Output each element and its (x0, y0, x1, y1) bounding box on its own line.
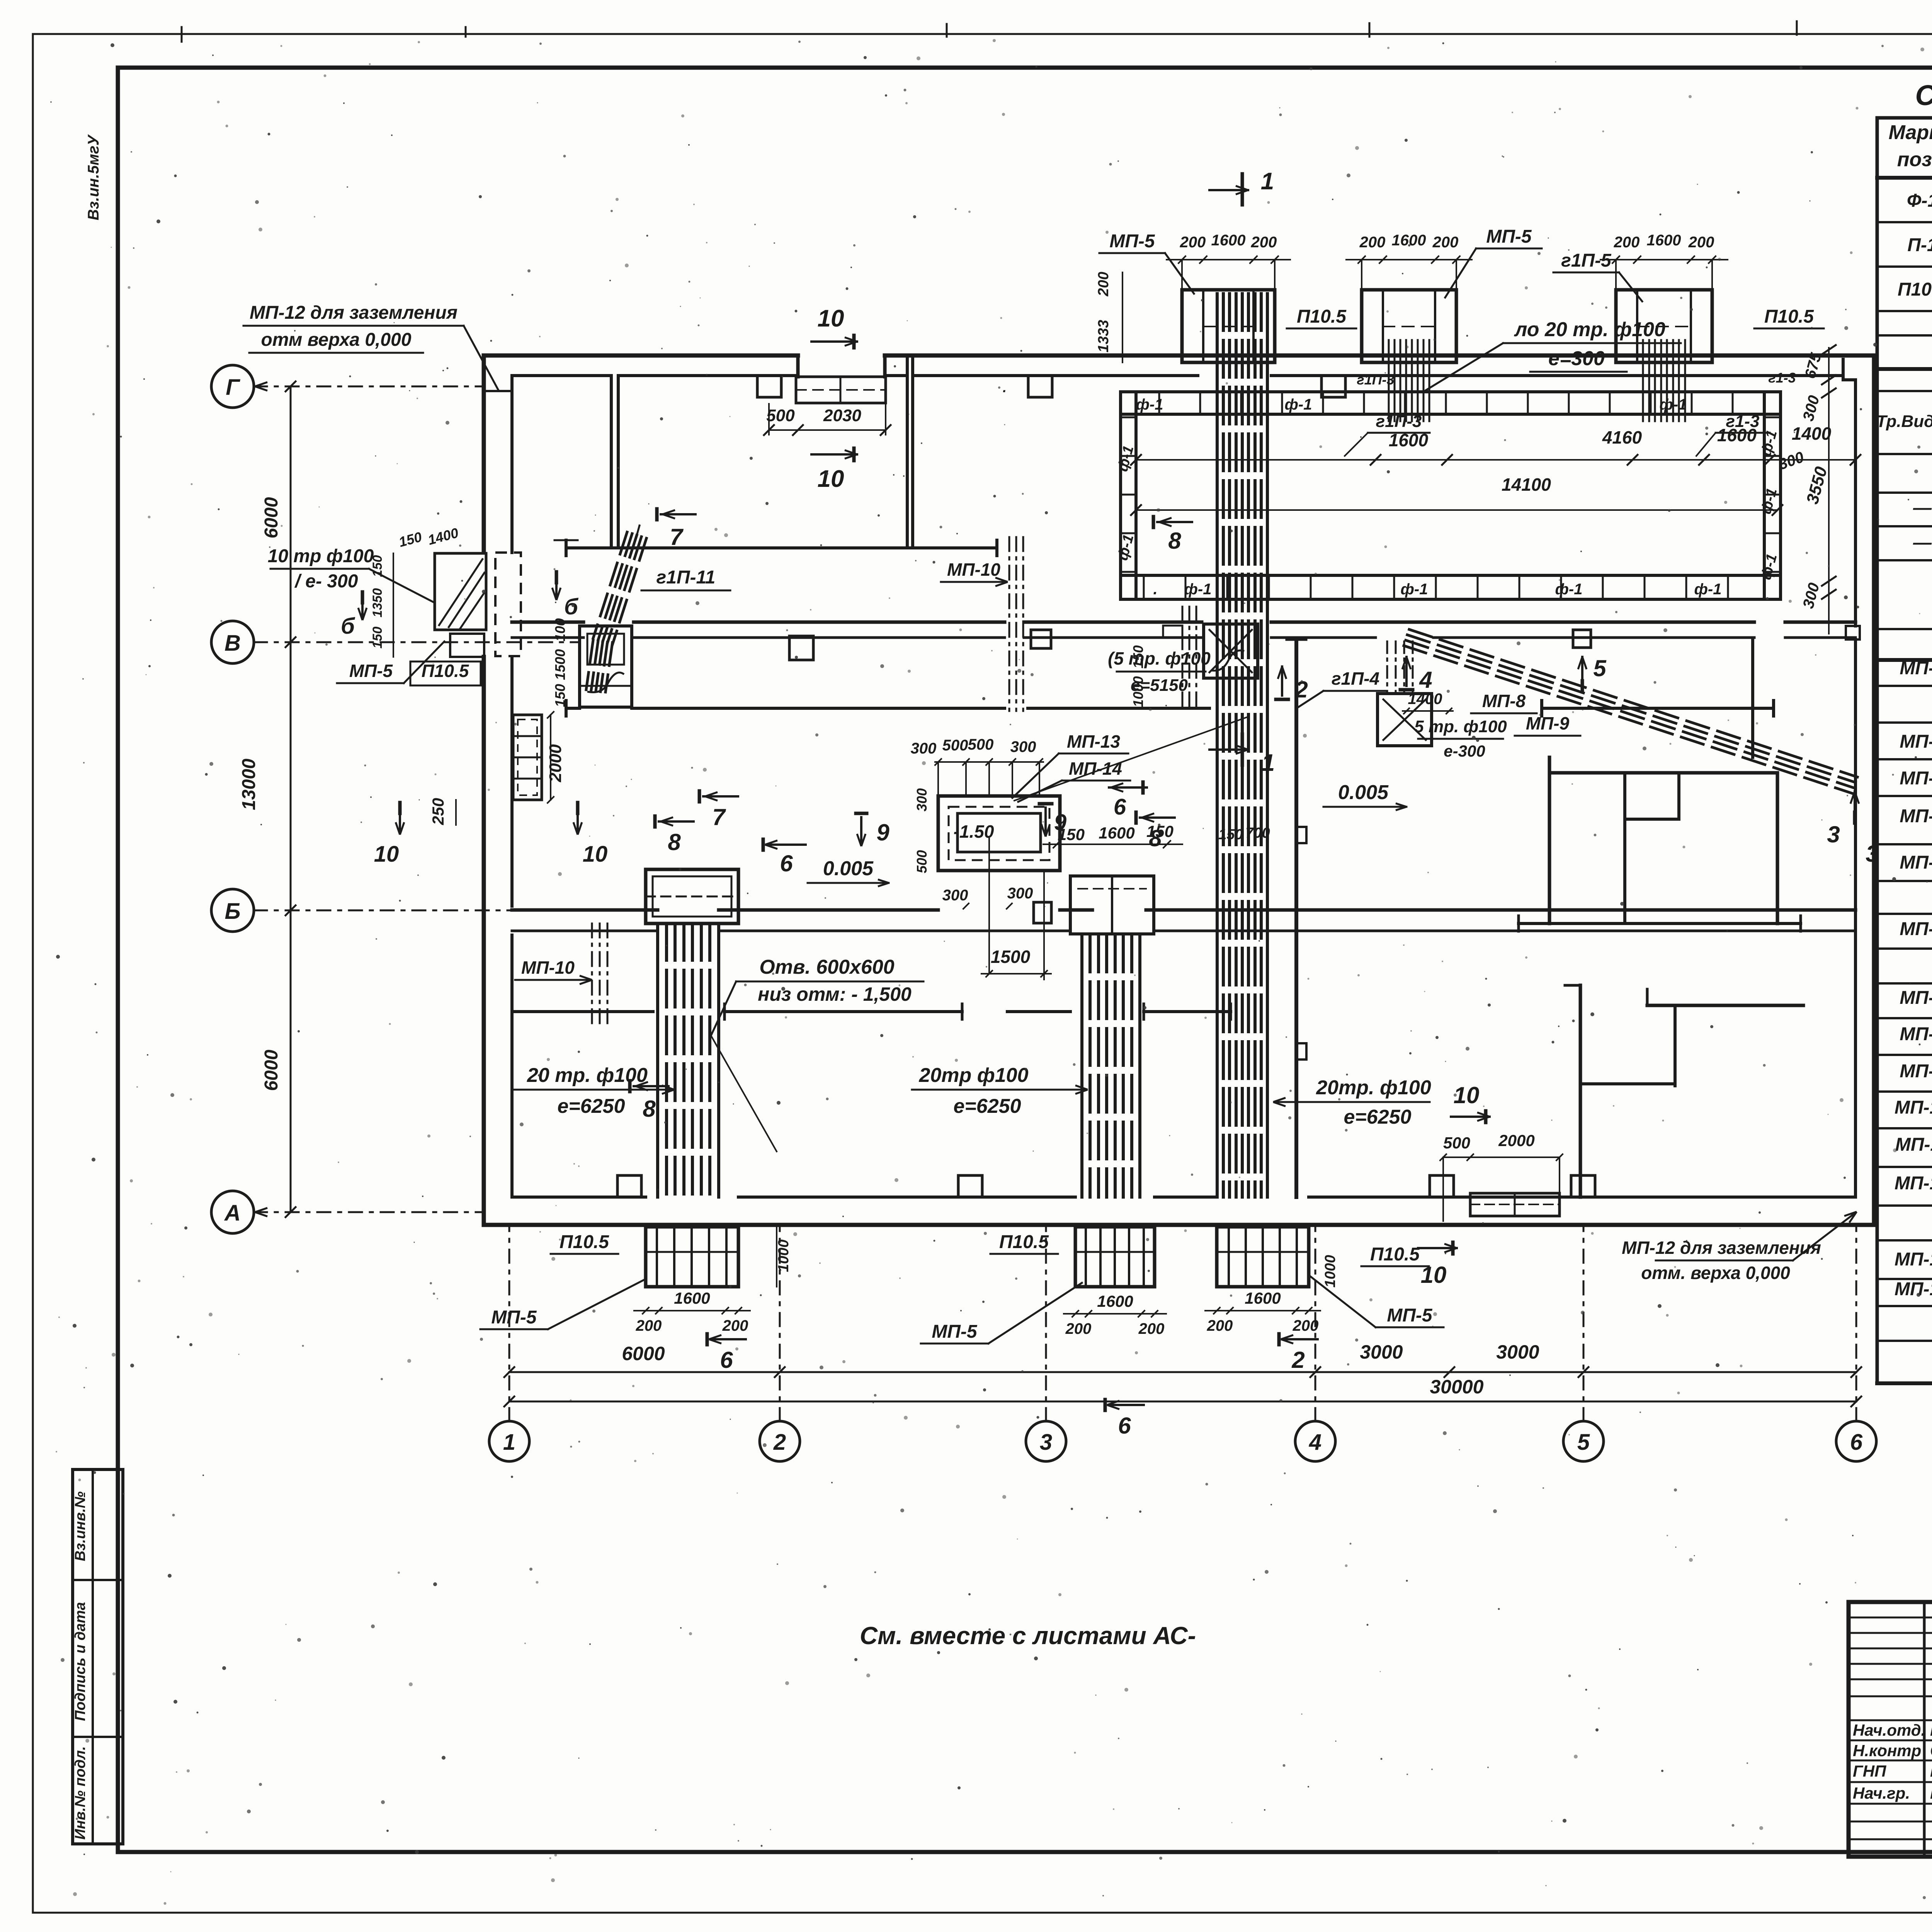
section flag 10 above recess (852, 335, 856, 348)
svg-text:3: 3 (1827, 821, 1840, 847)
svg-text:500: 500 (914, 850, 930, 873)
svg-text:1400: 1400 (1408, 690, 1442, 707)
svg-text:2000: 2000 (1498, 1131, 1534, 1150)
svg-text:6000: 6000 (261, 497, 282, 538)
flag 3 right end of D2 (1853, 812, 1857, 823)
svg-text:0.005: 0.005 (1338, 781, 1389, 804)
MP-9 / D2 diagonal bundle (1409, 629, 1857, 777)
svg-text:1500: 1500 (552, 649, 568, 680)
svg-text:2030: 2030 (823, 406, 861, 425)
right middle room cluster (1548, 757, 1551, 923)
svg-text:200: 200 (722, 1317, 748, 1334)
svg-text:6: 6 (720, 1347, 733, 1373)
B1 lower box P10.5 (1217, 1227, 1309, 1287)
flag 6 pair mid (762, 839, 765, 850)
dim 1500 (981, 973, 1051, 975)
svg-text:П10.5: П10.5 (1764, 306, 1814, 327)
svg-text:300: 300 (914, 788, 930, 811)
svg-text:8: 8 (1149, 825, 1162, 851)
svg-text:6: 6 (1118, 1413, 1131, 1439)
svg-text:300: 300 (1010, 738, 1036, 755)
svg-text:300: 300 (942, 887, 968, 904)
B2 lower box P10.5 (646, 1227, 738, 1287)
svg-text:Вз.ин.5мгУ: Вз.ин.5мгУ (85, 134, 102, 220)
svg-text:МП-10: МП-10 (947, 560, 1000, 580)
svg-text:ло 20 тр. ф100: ло 20 тр. ф100 (1514, 318, 1665, 341)
dim 300/500/500/300 above pit (935, 761, 1043, 763)
axis circle V (211, 621, 254, 663)
svg-text:1600: 1600 (674, 1289, 710, 1307)
svg-text:МП-9: МП-9 (1900, 1061, 1932, 1082)
left margin column table (73, 1469, 123, 1844)
svg-text:ф-1: ф-1 (1555, 581, 1583, 598)
svg-text:низ отм: - 1,500: низ отм: - 1,500 (758, 983, 912, 1005)
MP-10 dashed crossing at right (15tr) (1182, 607, 1184, 711)
svg-text:МП-10: МП-10 (521, 957, 575, 978)
dim 500 2030 under recess (769, 429, 886, 431)
svg-text:Б: Б (224, 899, 240, 924)
svg-text:Тр.Вид-100: Тр.Вид-100 (1876, 412, 1932, 431)
svg-text:-1.50: -1.50 (954, 821, 994, 842)
wall stub right of W6 (1751, 639, 1754, 757)
svg-text:г1П-11: г1П-11 (656, 567, 716, 588)
svg-text:МП-11: МП-11 (1895, 1134, 1932, 1155)
wall W4 corridor lower (y 1833) (566, 707, 580, 710)
svg-text:200: 200 (1207, 1317, 1233, 1334)
svg-text:1: 1 (1261, 168, 1274, 195)
V-axis center pit (B1) (1211, 650, 1244, 670)
axis circle 2 (760, 1421, 800, 1461)
svg-text:10: 10 (374, 842, 399, 867)
svg-text:150: 150 (1130, 645, 1146, 668)
svg-text:5: 5 (1577, 1430, 1590, 1455)
svg-text:7: 7 (712, 804, 726, 830)
svg-text:10: 10 (818, 466, 844, 492)
long leader diagonal to pit (1014, 717, 1248, 801)
B3 upper entry box (1070, 876, 1154, 934)
svg-text:13000: 13000 (239, 759, 259, 810)
svg-text:8: 8 (668, 829, 681, 855)
title block outer (1849, 1602, 1932, 1857)
svg-text:П10.5: П10.5 (999, 1232, 1049, 1252)
svg-text:ф-1: ф-1 (1285, 396, 1312, 413)
small dims 150/1350/150 left annex (393, 553, 394, 657)
right wall pilaster (1846, 626, 1860, 639)
bottom dimension line 1 (509, 1371, 1856, 1373)
right wall top recess (1842, 359, 1845, 380)
svg-text:3000: 3000 (1360, 1341, 1403, 1363)
svg-text:2000: 2000 (546, 744, 565, 782)
pipe bundle B1 vertical (1216, 294, 1219, 1197)
svg-text:1000: 1000 (1130, 676, 1146, 707)
svg-text:См. вместе с листами АС-: См. вместе с листами АС- (860, 1622, 1196, 1650)
svg-text:6000: 6000 (622, 1343, 665, 1364)
svg-text:6: 6 (1114, 794, 1126, 820)
pit block wall top band (1121, 392, 1781, 414)
svg-text:1000: 1000 (776, 1240, 792, 1272)
svg-text:б: б (341, 614, 355, 639)
section flag b pair (361, 592, 364, 603)
axis circle 6 (1836, 1421, 1876, 1461)
svg-text:700: 700 (1245, 825, 1270, 841)
svg-text:—: — (1913, 498, 1932, 518)
svg-text:МП-4: МП-4 (1900, 806, 1932, 827)
flag 7 pair (655, 509, 659, 520)
svg-text:МП-5: МП-5 (1387, 1305, 1432, 1326)
svg-text:МП-10: МП-10 (1895, 1097, 1932, 1118)
B2 upper entry box (646, 869, 738, 923)
svg-text:ф-1: ф-1 (1184, 581, 1212, 598)
svg-text:Вз.инв.№: Вз.инв.№ (72, 1492, 88, 1561)
flag 8 left lower (628, 1081, 632, 1092)
svg-text:4: 4 (1309, 1430, 1321, 1455)
svg-text:1400: 1400 (1792, 423, 1832, 444)
svg-text:б: б (564, 594, 579, 619)
svg-text:МП-7: МП-7 (1900, 988, 1932, 1008)
left top box vertical dims 200/1333 (1122, 272, 1123, 362)
svg-text:е-300: е-300 (1444, 742, 1485, 760)
flag 8 pair (1152, 517, 1155, 527)
svg-text:МП-12 для заземления: МП-12 для заземления (250, 303, 457, 323)
svg-text:Отв. 600х600: Отв. 600х600 (759, 956, 895, 978)
svg-text:Ковалев: Ковалев (1930, 1762, 1932, 1781)
flag 2 below pit (1276, 698, 1288, 701)
right lower room cluster (1579, 985, 1582, 1197)
svg-text:200: 200 (1614, 234, 1640, 251)
pit inner dim chain 1600/4160/1600/1400 (1136, 459, 1855, 461)
svg-text:1350: 1350 (370, 588, 385, 617)
svg-text:МП-14: МП-14 (1895, 1279, 1932, 1299)
building outer wall left (482, 355, 486, 553)
svg-text:МП-2: МП-2 (1900, 731, 1932, 752)
svg-text:1000: 1000 (1322, 1255, 1338, 1288)
svg-text:5: 5 (1593, 655, 1607, 681)
svg-text:3000: 3000 (1496, 1341, 1539, 1363)
svg-text:Подпись и дата: Подпись и дата (72, 1602, 88, 1721)
svg-text:150: 150 (552, 684, 568, 707)
svg-text:8: 8 (1168, 528, 1181, 554)
B3 lower box P10.5 (1075, 1227, 1155, 1287)
svg-text:Шленова: Шленова (1930, 1784, 1932, 1803)
MP-11 pit at axis V (580, 626, 632, 707)
svg-text:МП-12 для заземления: МП-12 для заземления (1622, 1238, 1821, 1258)
svg-text:МП-13: МП-13 (1895, 1249, 1932, 1270)
axis circle G (211, 365, 254, 408)
svg-text:е=6250: е=6250 (1344, 1106, 1412, 1128)
svg-text:МП-6: МП-6 (1900, 919, 1932, 939)
flag 9 pair (856, 812, 867, 815)
MP-10 dashed bundle left (591, 923, 593, 1024)
wall W3 corridor upper (y 1610/1650) (512, 621, 583, 624)
axis horizontal dash lines (254, 386, 485, 388)
section flag 10 below recess (852, 448, 856, 461)
svg-text:В: В (224, 631, 241, 656)
svg-text:МП-3: МП-3 (1900, 768, 1932, 789)
axis circle 3 (1026, 1421, 1066, 1461)
svg-text:П10.5: П10.5 (1898, 279, 1932, 300)
svg-text:П10.5: П10.5 (1297, 306, 1347, 327)
svg-text:20тр ф100: 20тр ф100 (918, 1064, 1028, 1087)
svg-text:МП-5: МП-5 (491, 1307, 537, 1328)
axis circle 4 (1295, 1421, 1335, 1461)
svg-text:1: 1 (1262, 750, 1275, 776)
column pilasters (757, 376, 781, 397)
right vertical dim chain 675/300/3550/300 (1828, 348, 1830, 634)
svg-text:7: 7 (670, 524, 684, 550)
flag 4 below pit (1400, 688, 1413, 692)
svg-text:250: 250 (429, 798, 447, 825)
title block left thin rows (1849, 1617, 1932, 1619)
svg-text:г1-3: г1-3 (1768, 370, 1796, 386)
svg-text:100: 100 (552, 618, 568, 641)
svg-text:4160: 4160 (1602, 427, 1642, 447)
svg-text:отм. верха 0,000: отм. верха 0,000 (1641, 1263, 1790, 1283)
svg-text:МП-1: МП-1 (1900, 658, 1932, 679)
axis circle 1 (489, 1421, 529, 1461)
title block left columns (1923, 1602, 1926, 1857)
svg-text:г1П-3: г1П-3 (1357, 372, 1394, 388)
svg-text:ф-1: ф-1 (1694, 581, 1722, 598)
flags 10 pair near stair (398, 803, 402, 813)
svg-text:г1П-4: г1П-4 (1332, 668, 1379, 689)
svg-text:10: 10 (1454, 1082, 1480, 1108)
MP-10 dashed bundle center (1009, 537, 1010, 711)
svg-text:200: 200 (1138, 1320, 1165, 1337)
pipe bundle B3 vertical (1080, 935, 1083, 1197)
B3 dim 150/1600/150 (1043, 844, 1182, 845)
svg-text:МП-5: МП-5 (1109, 231, 1155, 252)
svg-text:2: 2 (1291, 1347, 1304, 1373)
vertical hatch in top boxes (1388, 340, 1390, 421)
svg-text:МП-12: МП-12 (1895, 1173, 1932, 1194)
svg-text:.: . (1153, 581, 1157, 598)
building outer wall top (484, 354, 798, 358)
wall V2 vertical (906, 355, 909, 548)
B1 passes pit box at axis V (1204, 624, 1258, 678)
svg-text:3: 3 (1040, 1430, 1052, 1455)
svg-text:6: 6 (1850, 1430, 1863, 1455)
svg-text:е=300: е=300 (1548, 347, 1605, 370)
svg-text:20тр. ф100: 20тр. ф100 (1316, 1077, 1431, 1099)
left annex hatched entrance (435, 553, 486, 630)
top pipe entry boxes P10.5 (1182, 290, 1275, 362)
svg-text:Сацюк: Сацюк (1930, 1741, 1932, 1760)
svg-text:30000: 30000 (1430, 1376, 1483, 1398)
svg-text:2: 2 (773, 1430, 786, 1455)
svg-text:500: 500 (1443, 1134, 1470, 1152)
wall W2 thin (y 1418) (566, 546, 997, 549)
svg-text:Инв.№ подл.: Инв.№ подл. (72, 1746, 88, 1840)
svg-text:150: 150 (370, 627, 385, 649)
svg-text:г1-3: г1-3 (1726, 412, 1759, 431)
svg-text:200: 200 (1432, 234, 1459, 251)
5tr dash bundle (1386, 641, 1388, 694)
svg-text:/ е- 300: / е- 300 (294, 571, 358, 592)
svg-text:ф-1: ф-1 (1136, 396, 1163, 413)
svg-text:3: 3 (1866, 841, 1878, 867)
section flags bottom 6 2 6 (706, 1334, 709, 1345)
svg-text:е=6250: е=6250 (954, 1095, 1021, 1117)
pit block wall right band (1764, 392, 1781, 599)
svg-text:200: 200 (1095, 272, 1112, 296)
svg-text:ф-1: ф-1 (1401, 581, 1428, 598)
svg-text:МП-13: МП-13 (1067, 731, 1120, 752)
central square pit (938, 796, 1060, 871)
svg-text:200: 200 (1180, 234, 1206, 251)
stair box with 2000 label (513, 715, 542, 800)
section flag 10 above bottom wall (1484, 1111, 1488, 1122)
svg-text:Ф-1: Ф-1 (1907, 190, 1932, 211)
svg-text:Н.контр: Н.контр (1853, 1742, 1921, 1760)
grate box 500/2000 at bottom wall (1470, 1193, 1560, 1216)
svg-text:П10.5: П10.5 (422, 661, 469, 681)
MP-11 diagonal bundle (612, 538, 646, 645)
svg-text:500: 500 (968, 736, 994, 753)
axis circle 5 (1563, 1421, 1604, 1461)
svg-text:А: А (224, 1201, 241, 1226)
svg-text:МП-5: МП-5 (1900, 852, 1932, 873)
svg-text:1: 1 (503, 1430, 515, 1455)
svg-text:500: 500 (942, 737, 968, 754)
svg-text:1600: 1600 (1647, 232, 1681, 249)
svg-text:14100: 14100 (1502, 474, 1551, 495)
top wall recess with grate 2030 (796, 355, 800, 377)
svg-text:МП-9: МП-9 (1526, 713, 1570, 733)
bottom dimension line 2 (30000) (509, 1401, 1856, 1403)
spec table outer box (1877, 116, 1932, 120)
svg-text:Г: Г (226, 375, 240, 400)
svg-text:10: 10 (583, 842, 608, 867)
svg-text:6000: 6000 (261, 1049, 282, 1091)
wall W5 on axis B (y 2355/2409) (512, 908, 658, 912)
svg-text:Нач.отд.: Нач.отд. (1853, 1721, 1925, 1739)
svg-text:150: 150 (1218, 827, 1243, 843)
svg-text:1600: 1600 (1211, 232, 1246, 249)
section flag 1 (lower) (1241, 734, 1244, 765)
svg-text:ГНП: ГНП (1853, 1762, 1886, 1780)
block dividers + F-1 labels top band (1158, 392, 1160, 414)
top margin tick marks (181, 27, 183, 42)
svg-text:9: 9 (1054, 810, 1066, 835)
svg-text:г1П-3: г1П-3 (1376, 412, 1422, 431)
svg-text:9: 9 (876, 820, 889, 845)
building outer wall right (1872, 355, 1876, 1225)
svg-text:200: 200 (1251, 234, 1277, 251)
svg-text:10 тр ф100: 10 тр ф100 (268, 546, 374, 566)
svg-text:.: . (1003, 379, 1007, 395)
long wall right of B1 (x 3355) (1294, 639, 1298, 1197)
svg-text:отм верха 0,000: отм верха 0,000 (261, 330, 411, 350)
svg-text:500: 500 (766, 406, 795, 425)
left vertical dimension line (290, 386, 292, 1212)
pipe bundle B2 vertical (656, 923, 659, 1197)
axis circle B (211, 889, 254, 932)
svg-text:0.005: 0.005 (823, 857, 874, 880)
flag 5 right (1581, 681, 1584, 692)
svg-text:г1П-5: г1П-5 (1561, 250, 1612, 271)
svg-text:—: — (1913, 532, 1932, 553)
pit dim 14100 (1136, 509, 1777, 511)
svg-text:МП-8: МП-8 (1900, 1024, 1932, 1044)
building outer wall bottom (484, 1223, 1874, 1227)
svg-text:1500: 1500 (991, 947, 1031, 967)
svg-text:1333: 1333 (1095, 320, 1112, 353)
svg-text:6: 6 (780, 850, 793, 876)
svg-text:200: 200 (1065, 1320, 1092, 1337)
svg-text:е=6250: е=6250 (558, 1095, 625, 1117)
axis circle A (211, 1191, 254, 1233)
wall V1 vertical (610, 376, 613, 548)
svg-text:1600: 1600 (1245, 1289, 1281, 1307)
svg-text:300: 300 (1007, 885, 1033, 902)
svg-text:200: 200 (1688, 234, 1714, 251)
bottom dim chains 200/1600/200 (634, 1310, 750, 1311)
svg-text:8: 8 (643, 1096, 656, 1122)
svg-text:П10.5: П10.5 (560, 1232, 609, 1252)
wall W6 (y 2618) (512, 1010, 653, 1013)
svg-text:МП-8: МП-8 (1482, 691, 1526, 711)
svg-text:4: 4 (1419, 667, 1432, 693)
section flag 1 (top) (1241, 174, 1244, 205)
svg-text:200: 200 (636, 1317, 662, 1334)
svg-text:Марка,: Марка, (1889, 121, 1932, 144)
svg-text:1600: 1600 (1097, 1292, 1133, 1310)
pit block wall bottom band (1121, 575, 1781, 599)
small 5tr pit box (1378, 694, 1432, 746)
svg-text:1600: 1600 (1099, 824, 1134, 842)
svg-text:Нач.гр.: Нач.гр. (1853, 1784, 1910, 1802)
svg-text:(5 тр. ф100: (5 тр. ф100 (1108, 648, 1211, 668)
svg-text:МП-5: МП-5 (1486, 226, 1532, 247)
svg-text:МП-5: МП-5 (349, 661, 393, 681)
svg-text:Роминский: Роминский (1930, 1721, 1932, 1740)
pit block wall left band (1121, 392, 1136, 599)
svg-text:Спецификация элементов подзе: Спецификация элементов подземного хозяйс… (1915, 79, 1932, 111)
svg-text:поз.: поз. (1897, 148, 1932, 171)
svg-text:300: 300 (911, 740, 937, 757)
svg-text:П-1: П-1 (1907, 235, 1932, 255)
svg-text:10: 10 (1421, 1262, 1447, 1288)
svg-text:5 тр. ф100: 5 тр. ф100 (1414, 717, 1507, 736)
svg-text:МП-5: МП-5 (932, 1321, 977, 1342)
svg-text:200: 200 (1293, 1317, 1319, 1334)
svg-text:200: 200 (1359, 234, 1386, 251)
spec table row lines (1877, 176, 1932, 180)
svg-text:МП-14: МП-14 (1069, 759, 1122, 779)
svg-text:150: 150 (370, 555, 385, 577)
svg-text:10: 10 (818, 305, 844, 332)
svg-text:П10.5: П10.5 (1370, 1244, 1420, 1265)
